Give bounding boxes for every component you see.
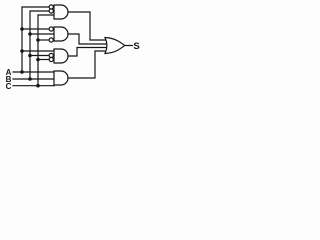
wire C tap to U2 input 3 xyxy=(38,39,49,41)
wire U3 output to U5 input 3 xyxy=(68,48,108,57)
junction A rail riser xyxy=(20,70,24,74)
U1 input 2 inversion bubble xyxy=(49,9,53,13)
AND gate U1 body xyxy=(54,5,68,19)
junction A to U3 xyxy=(20,49,24,53)
AND gate U2 body xyxy=(54,27,68,41)
wire B tap to U2 input 2 xyxy=(30,33,54,35)
AND gate U3 body xyxy=(54,49,68,63)
junction C to U3 xyxy=(36,58,40,62)
wire C riser to U1 input 3 xyxy=(38,15,54,86)
wire U4 output to U5 input 4 xyxy=(68,51,108,78)
svg-text:C: C xyxy=(6,82,12,91)
junction B to U3 xyxy=(28,54,32,58)
wire input rail B xyxy=(13,78,54,80)
wire A tap to U3 input 1 xyxy=(22,50,54,52)
U1 input 1 inversion bubble xyxy=(49,5,53,9)
junction C to U2 xyxy=(36,38,40,42)
wire A riser to U1 input 1 xyxy=(22,7,49,72)
U2 input 3 inversion bubble xyxy=(49,38,53,42)
wire A tap to U2 input 1 xyxy=(22,28,49,30)
wire B tap to U3 input 2 xyxy=(30,55,49,57)
wire input rail C xyxy=(13,85,54,87)
junction B rail riser xyxy=(28,77,32,81)
junction B to U2 xyxy=(28,32,32,36)
wire U2 output to U5 input 2 xyxy=(68,34,108,44)
U2 input 1 inversion bubble xyxy=(49,27,53,31)
OR gate U5 body xyxy=(105,38,125,54)
U3 input 2 inversion bubble xyxy=(49,53,53,57)
U3 input 3 inversion bubble xyxy=(49,57,53,61)
wire C tap to U3 input 3 xyxy=(38,59,49,61)
wire U5 output to S xyxy=(125,45,133,47)
AND gate U4 body xyxy=(54,71,68,85)
wire U1 output to U5 input 1 xyxy=(68,12,108,40)
junction C rail riser xyxy=(36,84,40,88)
wire B riser to U1 input 2 xyxy=(30,11,49,79)
svg-text:S: S xyxy=(133,41,139,52)
junction A to U2 xyxy=(20,27,24,31)
wire input rail A xyxy=(13,71,54,73)
